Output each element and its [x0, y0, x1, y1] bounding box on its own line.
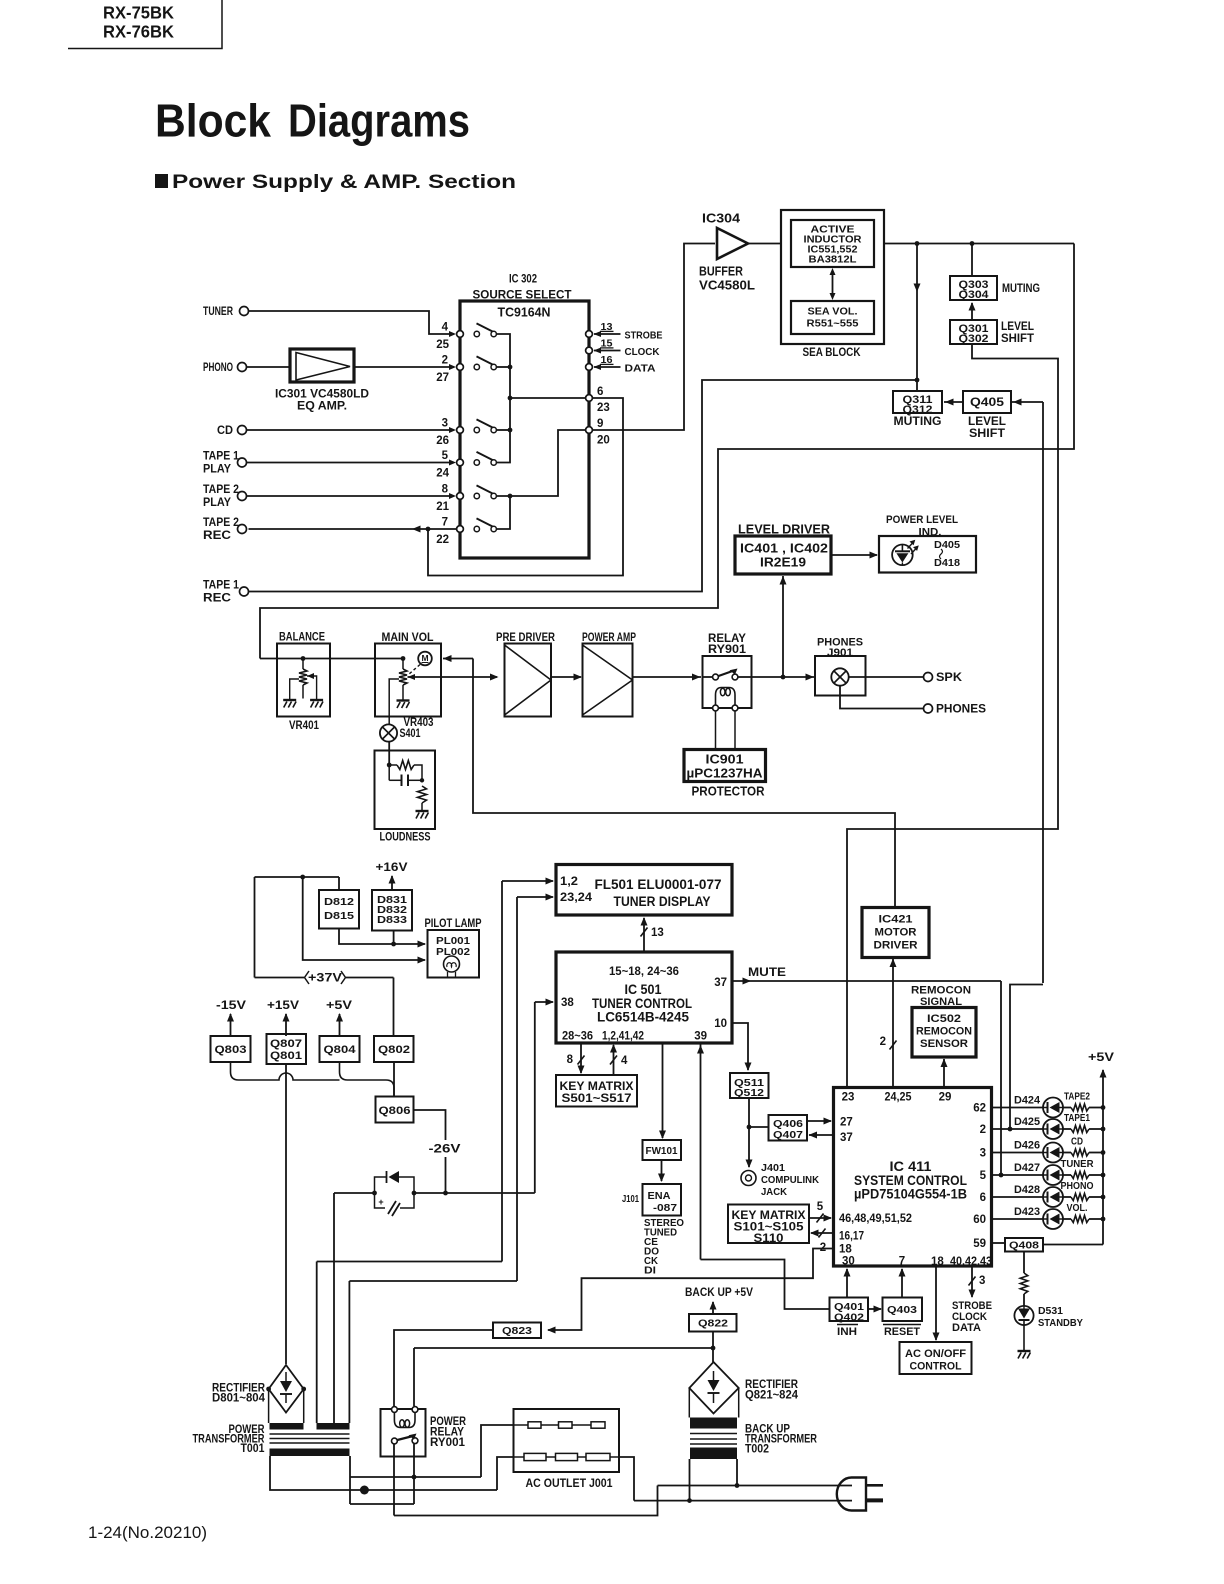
svg-text:VR401: VR401	[289, 720, 320, 732]
svg-text:23: 23	[597, 402, 610, 414]
svg-text:FW101: FW101	[646, 1145, 678, 1157]
svg-text:IC502: IC502	[927, 1013, 961, 1025]
svg-text:Q403: Q403	[887, 1304, 917, 1316]
svg-text:S401: S401	[400, 728, 421, 740]
svg-text:-26V: -26V	[429, 1144, 461, 1156]
svg-text:6: 6	[980, 1192, 986, 1204]
svg-text:TAPE 1: TAPE 1	[203, 580, 240, 592]
svg-text:Q804: Q804	[324, 1044, 357, 1056]
svg-text:INH: INH	[837, 1326, 857, 1338]
svg-text:SEA VOL.: SEA VOL.	[808, 307, 858, 318]
svg-text:37: 37	[714, 977, 727, 989]
svg-text:LOUDNESS: LOUDNESS	[380, 832, 431, 844]
svg-text:Q512: Q512	[734, 1087, 764, 1099]
svg-text:Diagrams: Diagrams	[288, 95, 470, 147]
svg-text:4: 4	[442, 322, 449, 334]
svg-text:Q822: Q822	[698, 1317, 728, 1329]
svg-text:LC6514B-4245: LC6514B-4245	[597, 1009, 689, 1024]
svg-text:Q304: Q304	[959, 289, 990, 301]
svg-text:+37V: +37V	[308, 973, 342, 985]
svg-text:7: 7	[442, 517, 448, 529]
svg-text:Q302: Q302	[959, 333, 989, 345]
svg-text:+16V: +16V	[376, 862, 408, 874]
svg-text:JACK: JACK	[761, 1186, 787, 1198]
svg-text:DATA: DATA	[952, 1322, 981, 1334]
svg-text:Q802: Q802	[378, 1044, 410, 1056]
svg-text:SOURCE SELECT: SOURCE SELECT	[473, 287, 573, 301]
svg-text:ENA: ENA	[648, 1190, 671, 1202]
svg-text:VC4580L: VC4580L	[699, 279, 755, 293]
svg-text:2: 2	[442, 355, 448, 367]
svg-text:MAIN VOL: MAIN VOL	[382, 632, 434, 644]
svg-text:M: M	[421, 653, 428, 663]
svg-text:26: 26	[436, 435, 449, 447]
svg-text:-15V: -15V	[216, 1000, 246, 1012]
svg-text:KEY MATRIX: KEY MATRIX	[560, 1081, 634, 1093]
svg-text:23,24: 23,24	[560, 892, 593, 904]
svg-text:D427: D427	[1014, 1162, 1040, 1174]
svg-text:16,17: 16,17	[839, 1231, 864, 1243]
svg-text:DATA: DATA	[625, 363, 656, 375]
svg-text:Q821~824: Q821~824	[745, 1390, 799, 1402]
svg-text:37: 37	[840, 1132, 853, 1144]
svg-text:POWER LEVEL: POWER LEVEL	[886, 514, 958, 526]
svg-text:Q407: Q407	[773, 1129, 803, 1141]
svg-text:13: 13	[651, 927, 664, 939]
svg-text:BUFFER: BUFFER	[699, 265, 743, 279]
svg-text:23: 23	[842, 1092, 855, 1104]
svg-text:60: 60	[973, 1214, 986, 1226]
svg-text:DI: DI	[644, 1266, 656, 1277]
svg-text:TAPE 2: TAPE 2	[203, 517, 239, 529]
svg-text:LEVEL DRIVER: LEVEL DRIVER	[738, 523, 830, 537]
svg-text:1,2,41,42: 1,2,41,42	[602, 1031, 644, 1043]
svg-text:D405: D405	[934, 539, 960, 551]
svg-text:SHIFT: SHIFT	[1001, 333, 1034, 345]
svg-text:PILOT LAMP: PILOT LAMP	[425, 918, 482, 930]
svg-text:27: 27	[436, 372, 449, 384]
svg-text:21: 21	[436, 501, 449, 513]
svg-text:DRIVER: DRIVER	[874, 940, 918, 952]
svg-text:D424: D424	[1014, 1095, 1041, 1107]
svg-text:1-24(No.20210): 1-24(No.20210)	[88, 1523, 207, 1542]
svg-text:3: 3	[442, 418, 448, 430]
svg-text:Block: Block	[155, 95, 271, 147]
svg-text:REC: REC	[203, 530, 231, 542]
svg-text:18: 18	[839, 1244, 852, 1256]
svg-text:+15V: +15V	[267, 1000, 299, 1012]
svg-text:3: 3	[979, 1275, 985, 1287]
svg-text:IC401 , IC402: IC401 , IC402	[740, 542, 828, 556]
svg-text:LEVEL: LEVEL	[968, 416, 1006, 428]
svg-text:D531: D531	[1038, 1305, 1063, 1317]
svg-text:Q823: Q823	[502, 1325, 532, 1337]
svg-text:46,48,49,51,52: 46,48,49,51,52	[839, 1213, 912, 1225]
svg-text:SPK: SPK	[936, 672, 963, 684]
svg-text:24: 24	[436, 468, 449, 480]
svg-text:RX-75BK: RX-75BK	[103, 2, 174, 22]
svg-text:Q402: Q402	[834, 1311, 864, 1323]
svg-text:9: 9	[597, 418, 603, 430]
svg-text:16: 16	[601, 354, 613, 366]
svg-text:RY001: RY001	[430, 1437, 466, 1449]
svg-text:LEVEL: LEVEL	[1001, 321, 1034, 333]
svg-text:MUTING: MUTING	[1002, 283, 1040, 295]
svg-text:TAPE2: TAPE2	[1064, 1092, 1090, 1103]
svg-text:J901: J901	[827, 647, 853, 659]
svg-text:BA3812L: BA3812L	[809, 255, 857, 266]
svg-text:SHIFT: SHIFT	[969, 428, 1005, 440]
svg-text:TC9164N: TC9164N	[498, 305, 551, 320]
svg-text:KEY MATRIX: KEY MATRIX	[732, 1210, 806, 1222]
svg-text:CD: CD	[217, 425, 233, 437]
svg-text:S110: S110	[754, 1233, 784, 1245]
svg-text:IC 501: IC 501	[625, 982, 662, 997]
svg-text:TUNER: TUNER	[203, 306, 234, 318]
svg-text:VOL.: VOL.	[1067, 1203, 1088, 1214]
svg-text:IC421: IC421	[879, 914, 913, 926]
svg-text:Q801: Q801	[270, 1050, 302, 1062]
svg-text:PLAY: PLAY	[203, 464, 231, 476]
svg-text:20: 20	[597, 435, 610, 447]
svg-text:D812: D812	[324, 896, 354, 908]
svg-text:REMOCON: REMOCON	[911, 985, 971, 997]
svg-text:AC OUTLET J001: AC OUTLET J001	[526, 1478, 614, 1490]
svg-text:µPC1237HA: µPC1237HA	[687, 767, 763, 781]
svg-text:PHONO: PHONO	[1061, 1181, 1094, 1192]
svg-text:PROTECTOR: PROTECTOR	[692, 785, 765, 799]
svg-text:5: 5	[817, 1201, 824, 1213]
svg-text:5: 5	[980, 1170, 987, 1182]
svg-text:TAPE 2: TAPE 2	[203, 484, 239, 496]
svg-text:+5V: +5V	[326, 1000, 352, 1012]
svg-text:PHONO: PHONO	[203, 362, 233, 374]
svg-text:REMOCON: REMOCON	[916, 1026, 972, 1038]
svg-text:+: +	[378, 1197, 383, 1207]
svg-text:Power Supply & AMP. Section: Power Supply & AMP. Section	[172, 172, 516, 193]
svg-text:59: 59	[973, 1238, 986, 1250]
svg-text:40,42,43: 40,42,43	[950, 1256, 992, 1268]
svg-text:MUTING: MUTING	[894, 416, 942, 428]
svg-text:MOTOR: MOTOR	[875, 927, 917, 939]
svg-text:COMPULINK: COMPULINK	[761, 1174, 819, 1186]
svg-text:IC901: IC901	[706, 753, 744, 767]
svg-text:18: 18	[931, 1256, 944, 1268]
svg-text:PHONES: PHONES	[936, 704, 986, 716]
svg-text:D428: D428	[1014, 1184, 1040, 1196]
svg-text:8: 8	[442, 484, 449, 496]
svg-text:30: 30	[842, 1256, 855, 1268]
svg-text:FL501 ELU0001-077: FL501 ELU0001-077	[595, 877, 722, 892]
svg-text:PRE DRIVER: PRE DRIVER	[496, 632, 556, 644]
svg-text:29: 29	[939, 1092, 952, 1104]
svg-text:RX-76BK: RX-76BK	[103, 21, 174, 41]
svg-text:MUTE: MUTE	[748, 967, 786, 979]
svg-text:Q803: Q803	[215, 1044, 247, 1056]
svg-text:STANDBY: STANDBY	[1038, 1317, 1083, 1329]
svg-text:62: 62	[973, 1103, 986, 1115]
svg-text:39: 39	[694, 1031, 707, 1043]
svg-text:Q405: Q405	[970, 397, 1005, 409]
svg-text:25: 25	[436, 339, 449, 351]
svg-text:CONTROL: CONTROL	[910, 1361, 962, 1373]
svg-text:28~36: 28~36	[562, 1031, 593, 1043]
svg-text:CLOCK: CLOCK	[625, 346, 660, 358]
svg-text:IC 302: IC 302	[509, 271, 537, 285]
svg-text:8: 8	[567, 1054, 574, 1066]
svg-text:TAPE 1: TAPE 1	[203, 451, 240, 463]
svg-text:Q312: Q312	[903, 404, 933, 416]
svg-text:-087: -087	[653, 1202, 677, 1214]
svg-text:T001: T001	[241, 1443, 266, 1455]
svg-text:38: 38	[561, 997, 574, 1009]
svg-text:J101: J101	[622, 1193, 639, 1205]
svg-text:TUNER: TUNER	[1061, 1159, 1095, 1170]
svg-text:T002: T002	[745, 1444, 769, 1456]
svg-text:R551~555: R551~555	[807, 319, 859, 330]
svg-text:µPD75104G554-1B: µPD75104G554-1B	[854, 1186, 967, 1201]
svg-text:4: 4	[621, 1055, 628, 1067]
svg-text:EQ AMP.: EQ AMP.	[297, 398, 347, 412]
svg-text:STROBE: STROBE	[625, 330, 663, 342]
svg-text:POWER AMP: POWER AMP	[582, 632, 636, 644]
svg-text:24,25: 24,25	[885, 1092, 913, 1104]
svg-text:BACK UP +5V: BACK UP +5V	[685, 1287, 753, 1299]
svg-text:TAPE1: TAPE1	[1064, 1113, 1090, 1124]
svg-text:D833: D833	[377, 914, 407, 926]
svg-text:S101~S105: S101~S105	[734, 1222, 805, 1234]
svg-text:+5V: +5V	[1088, 1052, 1114, 1064]
svg-text:Q807: Q807	[270, 1038, 302, 1050]
svg-text:S501~S517: S501~S517	[562, 1093, 632, 1105]
svg-text:PLAY: PLAY	[203, 497, 231, 509]
svg-text:3: 3	[980, 1148, 986, 1160]
svg-text:REC: REC	[203, 593, 231, 605]
svg-text:SEA BLOCK: SEA BLOCK	[803, 347, 862, 359]
svg-text:D815: D815	[324, 910, 354, 922]
svg-text:AC ON/OFF: AC ON/OFF	[905, 1348, 966, 1360]
svg-text:J401: J401	[761, 1162, 785, 1174]
svg-text:6: 6	[597, 386, 603, 398]
svg-text:13: 13	[601, 321, 613, 333]
svg-text:IC 411: IC 411	[890, 1159, 933, 1174]
svg-text:10: 10	[714, 1018, 727, 1030]
svg-text:BALANCE: BALANCE	[279, 632, 325, 644]
svg-text:D426: D426	[1014, 1140, 1040, 1152]
svg-text:CD: CD	[1071, 1137, 1083, 1148]
svg-text:Q408: Q408	[1009, 1239, 1039, 1251]
svg-text:15: 15	[601, 338, 613, 350]
svg-text:D801~804: D801~804	[212, 1393, 266, 1405]
svg-text:2: 2	[820, 1242, 826, 1254]
svg-text:RY901: RY901	[708, 644, 747, 656]
svg-text:D425: D425	[1014, 1116, 1040, 1128]
svg-text:Q806: Q806	[379, 1105, 411, 1117]
svg-text:IND.: IND.	[919, 527, 942, 539]
svg-text:IR2E19: IR2E19	[760, 556, 806, 570]
svg-text:7: 7	[899, 1256, 905, 1268]
svg-text:5: 5	[442, 450, 449, 462]
svg-text:D423: D423	[1014, 1206, 1040, 1218]
svg-text:2: 2	[980, 1124, 986, 1136]
svg-text:27: 27	[840, 1117, 853, 1129]
svg-text:TUNER DISPLAY: TUNER DISPLAY	[614, 894, 711, 909]
svg-text:IC304: IC304	[702, 212, 740, 226]
svg-text:D418: D418	[934, 557, 960, 569]
svg-text:SENSOR: SENSOR	[920, 1038, 968, 1050]
svg-text:22: 22	[436, 534, 449, 546]
svg-text:2: 2	[880, 1036, 886, 1048]
svg-text:RESET: RESET	[884, 1326, 920, 1338]
svg-text:1,2: 1,2	[560, 876, 578, 888]
svg-text:15~18, 24~36: 15~18, 24~36	[609, 966, 679, 978]
